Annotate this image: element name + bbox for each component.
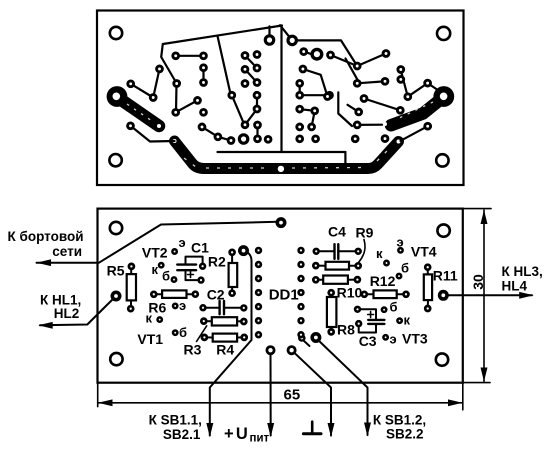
svg-text:HL2: HL2 <box>54 306 80 321</box>
wire zigzag right col 1 <box>300 109 315 111</box>
pointer R3 <box>197 326 207 342</box>
wire pad link a5-a6 <box>176 55 204 57</box>
wire pad link b16-b17 <box>408 83 428 97</box>
svg-text:+U: +U <box>224 425 250 443</box>
wire center bottom horizontal trace <box>218 151 346 153</box>
wire to SB1.1 SB2.1 <box>210 251 252 436</box>
wire pad link b8 up-left <box>346 59 360 84</box>
svg-text:R2: R2 <box>208 254 226 270</box>
svg-text:VT3: VT3 <box>402 331 428 347</box>
resistor R8 <box>327 290 337 334</box>
mounting hole bottom board bottom-left <box>110 353 122 365</box>
svg-text:К SB1.1,: К SB1.1, <box>149 413 202 428</box>
svg-text:к: к <box>404 313 411 328</box>
ground symbol <box>303 422 321 434</box>
svg-text:К бортовой: К бортовой <box>8 229 84 244</box>
svg-text:30: 30 <box>470 274 486 290</box>
wire top trace to pad cluster right <box>292 40 357 66</box>
svg-text:К HL3,: К HL3, <box>502 264 543 279</box>
pointer R9 <box>359 240 366 263</box>
large pad bottom center-left <box>239 135 247 143</box>
transistor VT2 pads <box>159 249 177 281</box>
transistor VT3 pads <box>382 308 402 340</box>
arrow K HL1 HL2 <box>38 322 53 329</box>
wire zigzag left col 1 <box>245 56 257 69</box>
svg-text:65: 65 <box>284 387 301 404</box>
transistor VT4 pads <box>384 248 402 278</box>
large pad top-right of center <box>288 36 296 44</box>
wire b12-b13 vertical <box>299 83 301 95</box>
node pad +U <box>267 347 274 354</box>
mounting hole top-left <box>110 27 122 39</box>
resistor R3 <box>201 317 246 325</box>
IC DD1 pads <box>256 248 303 337</box>
svg-text:R4: R4 <box>216 342 234 358</box>
dimension 30 extension top <box>463 208 492 210</box>
mounting hole bottom-right <box>436 154 448 166</box>
svg-text:VT4: VT4 <box>411 244 437 260</box>
capacitor C2 <box>201 301 247 314</box>
top PCB solder pads <box>128 49 431 144</box>
capacitor C3 <box>355 307 384 333</box>
svg-text:R3: R3 <box>184 342 202 358</box>
wire to HL3 HL4 <box>443 294 532 296</box>
wire top-left long trace <box>163 26 282 45</box>
svg-text:к: к <box>152 262 159 277</box>
wire center vertical trace <box>280 26 282 153</box>
wire pad link a4-a3 <box>153 69 159 98</box>
thick copper ground bus bottom <box>173 139 401 172</box>
svg-text:К SB1.2,: К SB1.2, <box>373 413 426 428</box>
resistor R4 <box>202 334 247 342</box>
mounting hole top-right <box>437 27 450 40</box>
wire pad b17 to thick trace <box>428 83 439 90</box>
arrow K SB1.1 SB2.1 <box>206 423 213 437</box>
svg-text:R9: R9 <box>356 225 374 241</box>
svg-text:DD1: DD1 <box>269 287 299 304</box>
mounting hole bottom-left <box>109 154 121 166</box>
svg-text:сети: сети <box>52 244 82 259</box>
wire stub P3 <box>348 105 359 112</box>
dimension 65 extension right <box>462 383 464 410</box>
resistor R6 <box>151 290 198 298</box>
svg-text:б: б <box>390 300 398 315</box>
svg-text:SB2.2: SB2.2 <box>386 427 424 442</box>
wire big pad stub left of center <box>268 26 270 36</box>
node pad HL3 <box>440 292 447 299</box>
wire bottom row right link <box>357 124 382 126</box>
svg-text:R11: R11 <box>433 268 458 284</box>
node pad ground <box>288 347 295 354</box>
svg-text:R8: R8 <box>337 322 355 338</box>
large ring pad right <box>312 49 322 59</box>
svg-text:R10: R10 <box>337 285 363 301</box>
wire pad link a11-a10 <box>176 100 198 112</box>
arrow ground <box>328 423 335 437</box>
resistor R2 <box>229 250 238 296</box>
wire pad link a1-a3 <box>131 84 154 98</box>
svg-text:э: э <box>179 298 186 313</box>
wire to +U power <box>270 350 272 435</box>
mounting hole bottom board bottom-right <box>436 353 448 365</box>
wire to HL1 HL2 <box>40 298 115 326</box>
resistor R10 <box>313 276 360 284</box>
wire zigzag left col 3 <box>245 109 257 125</box>
svg-text:б: б <box>401 261 409 276</box>
large pad top-left of center <box>265 36 273 44</box>
wire pad link a21 down <box>232 95 245 125</box>
dimension 30 line <box>481 210 488 382</box>
arrow +U power <box>267 423 274 437</box>
node pad HL1 <box>112 292 119 299</box>
svg-text:э: э <box>390 332 397 347</box>
arrow K bortovoi seti <box>37 259 52 266</box>
thick copper trace right <box>383 86 454 126</box>
svg-text:пит: пит <box>250 433 270 445</box>
wire to on-board network (K bortovoi seti) <box>37 222 278 263</box>
svg-text:HL4: HL4 <box>502 279 528 294</box>
svg-text:С2: С2 <box>207 287 225 303</box>
top PCB board outline <box>97 11 464 186</box>
capacitor C1 <box>177 257 205 283</box>
svg-text:SB2.1: SB2.1 <box>163 427 201 442</box>
wire bottom-left feed to bus <box>131 126 175 142</box>
svg-text:б: б <box>179 325 187 340</box>
wire left col vertical <box>256 95 258 109</box>
resistor R11 <box>424 265 432 311</box>
wire bottom row link left <box>202 127 231 141</box>
svg-text:С4: С4 <box>328 224 346 240</box>
wire drop to bus <box>344 152 346 164</box>
dimension 65 line <box>98 399 463 406</box>
wire pad link b5-b6 <box>357 54 386 67</box>
dimension 30 extension bottom <box>463 382 490 384</box>
resistor R12 <box>362 290 409 298</box>
resistor R5 <box>127 264 136 311</box>
svg-text:VT2: VT2 <box>142 245 168 261</box>
svg-text:к: к <box>146 311 153 326</box>
svg-text:э: э <box>179 235 186 250</box>
wire b24 to bus end <box>401 126 428 141</box>
dimension 65 extension left <box>97 383 99 407</box>
arrow K SB1.2 SB2.2 <box>364 423 371 437</box>
node pad SB1.2 <box>312 334 319 341</box>
wire pad link a7-a10 vertical <box>175 84 178 113</box>
wire stub b3-b2 <box>304 52 311 54</box>
wire pad link a8-a9 <box>202 68 204 83</box>
wire pad link b15-b19 <box>364 99 400 111</box>
arrow K HL3 HL4 <box>519 292 534 299</box>
svg-text:С1: С1 <box>191 240 209 256</box>
resistor R9 body <box>313 262 360 270</box>
wire pad link b4-b5 <box>331 55 358 66</box>
wire steep diagonal left-center <box>218 36 231 95</box>
mounting hole bottom board top-left <box>110 222 122 234</box>
svg-text:R12: R12 <box>370 273 396 289</box>
transistor VT1 pads <box>158 304 178 335</box>
bottom board outline <box>98 209 463 383</box>
wire b7 diagonal <box>303 69 328 97</box>
node pad feed upper <box>240 247 247 254</box>
wire zigzag left col 2 <box>245 69 257 82</box>
wire to common ground <box>292 350 331 435</box>
svg-text:VT1: VT1 <box>137 331 163 347</box>
wire pad link b10-b16 <box>401 70 408 97</box>
svg-text:б: б <box>162 269 170 284</box>
wire to SB1.2 SB2.2 <box>317 339 368 436</box>
svg-text:С3: С3 <box>359 333 377 349</box>
mounting hole bottom board top-right <box>437 224 449 236</box>
svg-text:R5: R5 <box>107 263 125 279</box>
node pad stub <box>299 335 309 346</box>
wire b13-b14 horizontal <box>300 94 330 96</box>
wire left col lower vertical <box>256 125 258 139</box>
svg-text:э: э <box>397 235 404 250</box>
wire left edge jog <box>338 92 352 126</box>
wire pad link b8-b9 <box>357 81 385 83</box>
wire to big pad right of center <box>280 25 292 40</box>
wire left corner drop <box>161 44 177 84</box>
svg-text:к: к <box>376 246 383 261</box>
wire zigzag right col 2 <box>312 111 315 127</box>
thick copper trace left <box>107 86 161 128</box>
capacitor C4 <box>314 244 361 259</box>
node pad bortovaya set <box>277 219 284 226</box>
